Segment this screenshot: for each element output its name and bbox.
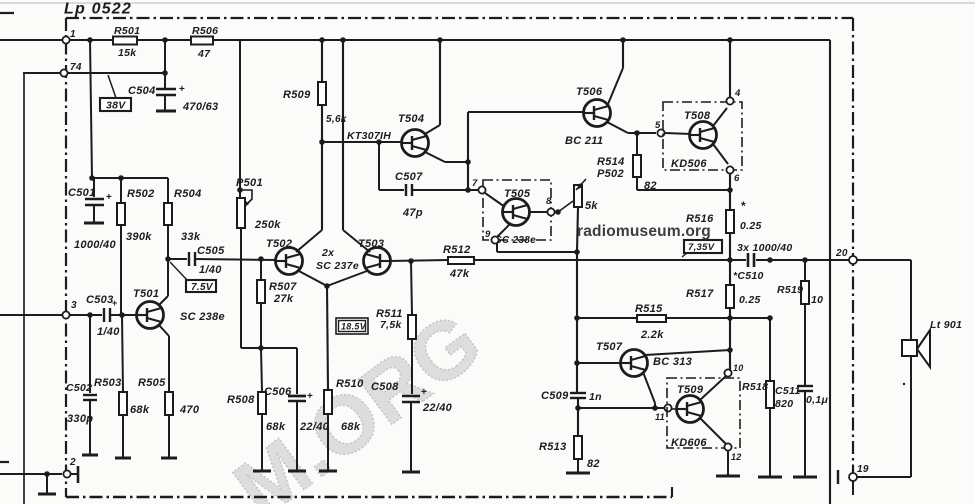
svg-text:1: 1 bbox=[70, 29, 76, 40]
svg-text:20: 20 bbox=[835, 248, 848, 259]
svg-text:KT307IH: KT307IH bbox=[347, 130, 391, 142]
svg-text:R519: R519 bbox=[777, 284, 803, 296]
svg-text:68k: 68k bbox=[130, 404, 150, 416]
svg-text:C503: C503 bbox=[86, 294, 114, 306]
svg-text:R503: R503 bbox=[94, 377, 122, 389]
svg-text:820: 820 bbox=[775, 398, 793, 410]
svg-text:R507: R507 bbox=[269, 281, 297, 293]
svg-text:R514: R514 bbox=[597, 156, 625, 168]
svg-text:82: 82 bbox=[587, 458, 600, 470]
svg-text:+: + bbox=[421, 387, 427, 398]
svg-text:38V: 38V bbox=[106, 100, 126, 112]
svg-text:7,35V: 7,35V bbox=[688, 242, 715, 253]
svg-text:1/40: 1/40 bbox=[199, 264, 222, 276]
svg-text:P502: P502 bbox=[597, 168, 624, 180]
svg-text:27k: 27k bbox=[273, 293, 294, 305]
svg-text:3x 1000/40: 3x 1000/40 bbox=[737, 242, 793, 254]
svg-text:74: 74 bbox=[70, 62, 82, 73]
svg-text:0.25: 0.25 bbox=[740, 220, 762, 232]
svg-text:KD506: KD506 bbox=[671, 158, 707, 170]
svg-text:1/40: 1/40 bbox=[97, 326, 120, 338]
svg-text:47p: 47p bbox=[402, 207, 423, 219]
svg-text:8: 8 bbox=[546, 196, 552, 207]
svg-text:47k: 47k bbox=[449, 268, 470, 280]
svg-text:2.2k: 2.2k bbox=[640, 329, 664, 341]
svg-text:SC 238e: SC 238e bbox=[495, 235, 536, 246]
svg-text:R518: R518 bbox=[742, 381, 768, 393]
svg-text:T504: T504 bbox=[398, 113, 424, 125]
svg-text:5,6k: 5,6k bbox=[326, 114, 347, 125]
svg-text:390k: 390k bbox=[126, 231, 152, 243]
svg-text:C506: C506 bbox=[264, 386, 292, 398]
svg-text:T507: T507 bbox=[596, 341, 623, 353]
svg-text:T505: T505 bbox=[504, 188, 531, 200]
svg-text:68k: 68k bbox=[341, 421, 361, 433]
svg-text:+: + bbox=[307, 391, 313, 402]
svg-text:0,1μ: 0,1μ bbox=[806, 394, 828, 406]
svg-text:C504: C504 bbox=[128, 85, 156, 97]
svg-text:T503: T503 bbox=[358, 238, 384, 250]
svg-text:R510: R510 bbox=[336, 378, 364, 390]
svg-text:T506: T506 bbox=[576, 86, 603, 98]
svg-text:T509: T509 bbox=[677, 384, 704, 396]
svg-text:47: 47 bbox=[197, 48, 211, 60]
svg-text:2x: 2x bbox=[321, 247, 335, 259]
svg-text:Lp 0522: Lp 0522 bbox=[64, 1, 132, 18]
svg-text:3: 3 bbox=[71, 300, 77, 311]
svg-text:250k: 250k bbox=[254, 219, 281, 231]
svg-text:R501: R501 bbox=[114, 25, 140, 37]
svg-text:C511: C511 bbox=[775, 385, 801, 397]
svg-text:+: + bbox=[179, 84, 185, 95]
svg-text:Lt 901: Lt 901 bbox=[930, 319, 962, 331]
svg-text:5k: 5k bbox=[585, 200, 598, 212]
svg-text:5: 5 bbox=[655, 120, 661, 131]
svg-text:12: 12 bbox=[731, 452, 742, 462]
svg-text:C507: C507 bbox=[395, 171, 423, 183]
svg-text:R517: R517 bbox=[686, 288, 714, 300]
svg-text:R508: R508 bbox=[227, 394, 255, 406]
svg-text:22/40: 22/40 bbox=[422, 402, 453, 414]
svg-text:15k: 15k bbox=[118, 47, 137, 59]
svg-text:10: 10 bbox=[733, 363, 744, 373]
svg-text:4: 4 bbox=[734, 88, 741, 99]
svg-text:R504: R504 bbox=[174, 188, 202, 200]
svg-text:2: 2 bbox=[69, 457, 76, 468]
svg-text:R505: R505 bbox=[138, 377, 166, 389]
svg-text:SC 238e: SC 238e bbox=[180, 311, 225, 323]
svg-text:T508: T508 bbox=[684, 110, 711, 122]
svg-text:9: 9 bbox=[485, 229, 491, 240]
svg-text:7: 7 bbox=[472, 178, 478, 189]
svg-text:6: 6 bbox=[734, 173, 740, 184]
svg-text:C508: C508 bbox=[371, 381, 399, 393]
svg-text:R513: R513 bbox=[539, 441, 567, 453]
svg-text:T501: T501 bbox=[133, 288, 159, 300]
svg-text:+: + bbox=[106, 192, 112, 203]
svg-text:*: * bbox=[741, 199, 746, 213]
svg-text:C509: C509 bbox=[541, 390, 569, 402]
svg-text:7.5V: 7.5V bbox=[191, 282, 214, 293]
svg-text:C502: C502 bbox=[66, 382, 92, 394]
svg-text:68k: 68k bbox=[266, 421, 286, 433]
svg-text:*C510: *C510 bbox=[733, 270, 764, 282]
svg-text:R509: R509 bbox=[283, 89, 311, 101]
svg-text:1000/40: 1000/40 bbox=[74, 239, 116, 251]
svg-text:radiomuseum.org: radiomuseum.org bbox=[577, 223, 711, 240]
svg-text:19: 19 bbox=[857, 464, 869, 475]
svg-text:33k: 33k bbox=[181, 231, 201, 243]
svg-text:P501: P501 bbox=[236, 177, 263, 189]
svg-text:BC 211: BC 211 bbox=[565, 135, 603, 147]
svg-text:18.5V: 18.5V bbox=[341, 322, 367, 332]
svg-text:22/40: 22/40 bbox=[299, 421, 330, 433]
svg-text:0.25: 0.25 bbox=[739, 294, 761, 306]
svg-text:11: 11 bbox=[655, 412, 665, 422]
svg-text:KD606: KD606 bbox=[671, 437, 707, 449]
svg-text:82: 82 bbox=[644, 180, 657, 192]
svg-text:T502: T502 bbox=[266, 238, 292, 250]
svg-text:BC 313: BC 313 bbox=[653, 356, 692, 368]
svg-text:R512: R512 bbox=[443, 244, 471, 256]
svg-text:C501: C501 bbox=[68, 187, 96, 199]
svg-text:7,5k: 7,5k bbox=[380, 319, 402, 331]
svg-text:R502: R502 bbox=[127, 188, 155, 200]
svg-text:C505: C505 bbox=[197, 245, 225, 257]
svg-text:10: 10 bbox=[811, 294, 823, 306]
svg-text:1n: 1n bbox=[589, 391, 602, 403]
svg-text:470/63: 470/63 bbox=[182, 101, 218, 113]
svg-text:470: 470 bbox=[179, 404, 200, 416]
svg-text:SC 237e: SC 237e bbox=[316, 260, 359, 272]
svg-text:330p: 330p bbox=[67, 413, 93, 425]
svg-text:R515: R515 bbox=[635, 303, 663, 315]
svg-text:R506: R506 bbox=[192, 25, 218, 37]
